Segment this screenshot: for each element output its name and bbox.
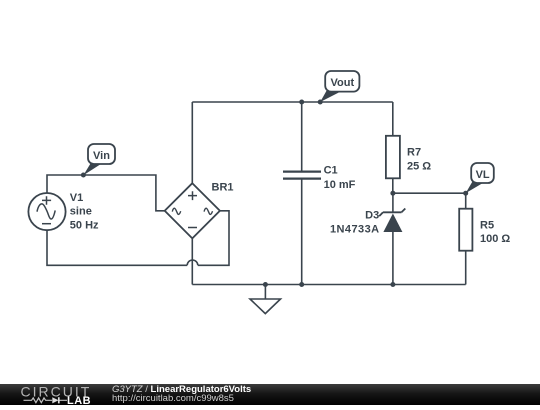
wire ground rail: [192, 284, 465, 286]
node Vin flag: [81, 144, 115, 178]
wire bottom AC loop: V1 bottom lead to bridge AC right input with hop: [47, 211, 229, 265]
svg-text:R7: R7: [407, 147, 421, 159]
svg-text:100 Ω: 100 Ω: [480, 233, 510, 245]
label C1 value: [324, 165, 356, 191]
wire R5 top lead: [465, 193, 467, 209]
svg-text:C1: C1: [324, 165, 338, 177]
wire mid rail R7 to VL node: [393, 192, 466, 194]
wire D3 cathode lead: [392, 193, 394, 212]
wire bridge - output down to ground rail: [191, 238, 193, 284]
svg-text:BR1: BR1: [212, 182, 234, 194]
voltage source V1: [28, 193, 65, 230]
junction dot ground tap: [263, 282, 268, 287]
wire top rail Vout: [192, 101, 392, 103]
svg-text:V1: V1: [70, 192, 83, 204]
node VL flag: [463, 163, 494, 196]
wire R7 top lead: [392, 102, 394, 136]
resistor R7: [386, 136, 400, 179]
wire ground stub: [264, 285, 266, 300]
wire D3 anode lead: [392, 232, 394, 285]
wire bridge + output to top rail: [191, 102, 193, 183]
junction dot R7 bottom: [390, 191, 395, 196]
wire R7 bottom lead: [392, 178, 394, 193]
svg-text:Vin: Vin: [93, 150, 110, 162]
label V1 value: [70, 192, 99, 232]
node Vout flag: [318, 71, 360, 105]
label R7 value: [407, 147, 431, 173]
svg-text:1N4733A: 1N4733A: [330, 224, 380, 236]
capacitor C1: [283, 172, 321, 179]
ground: [250, 299, 281, 314]
zener diode D3: [379, 209, 405, 233]
junction dot C1 bottom: [299, 282, 304, 287]
resistor R5: [459, 209, 472, 251]
label D3 value: [330, 209, 380, 235]
footer bar: [0, 384, 540, 405]
wire C1 bottom lead: [301, 179, 303, 285]
svg-text:R5: R5: [480, 219, 494, 231]
svg-text:25 Ω: 25 Ω: [407, 160, 431, 172]
svg-text:LAB: LAB: [67, 395, 91, 405]
junction dot D3 anode: [390, 282, 395, 287]
footer text: [112, 385, 251, 403]
junction dot top rail C1: [299, 100, 304, 105]
label R5 value: [480, 219, 510, 245]
svg-text:D3: D3: [365, 209, 379, 221]
CircuitLab logo: [20, 384, 120, 410]
wire C1 top lead: [301, 102, 303, 171]
svg-text:VL: VL: [476, 169, 490, 181]
wire Vin top: V1 top lead to bridge AC left input: [47, 175, 165, 211]
svg-text:sine: sine: [70, 206, 92, 218]
svg-text:Vout: Vout: [330, 77, 354, 89]
svg-text:10 mF: 10 mF: [324, 179, 356, 191]
bridge rectifier BR1: [165, 183, 220, 238]
svg-text:50 Hz: 50 Hz: [70, 219, 99, 231]
wire R5 bottom lead: [465, 251, 467, 285]
